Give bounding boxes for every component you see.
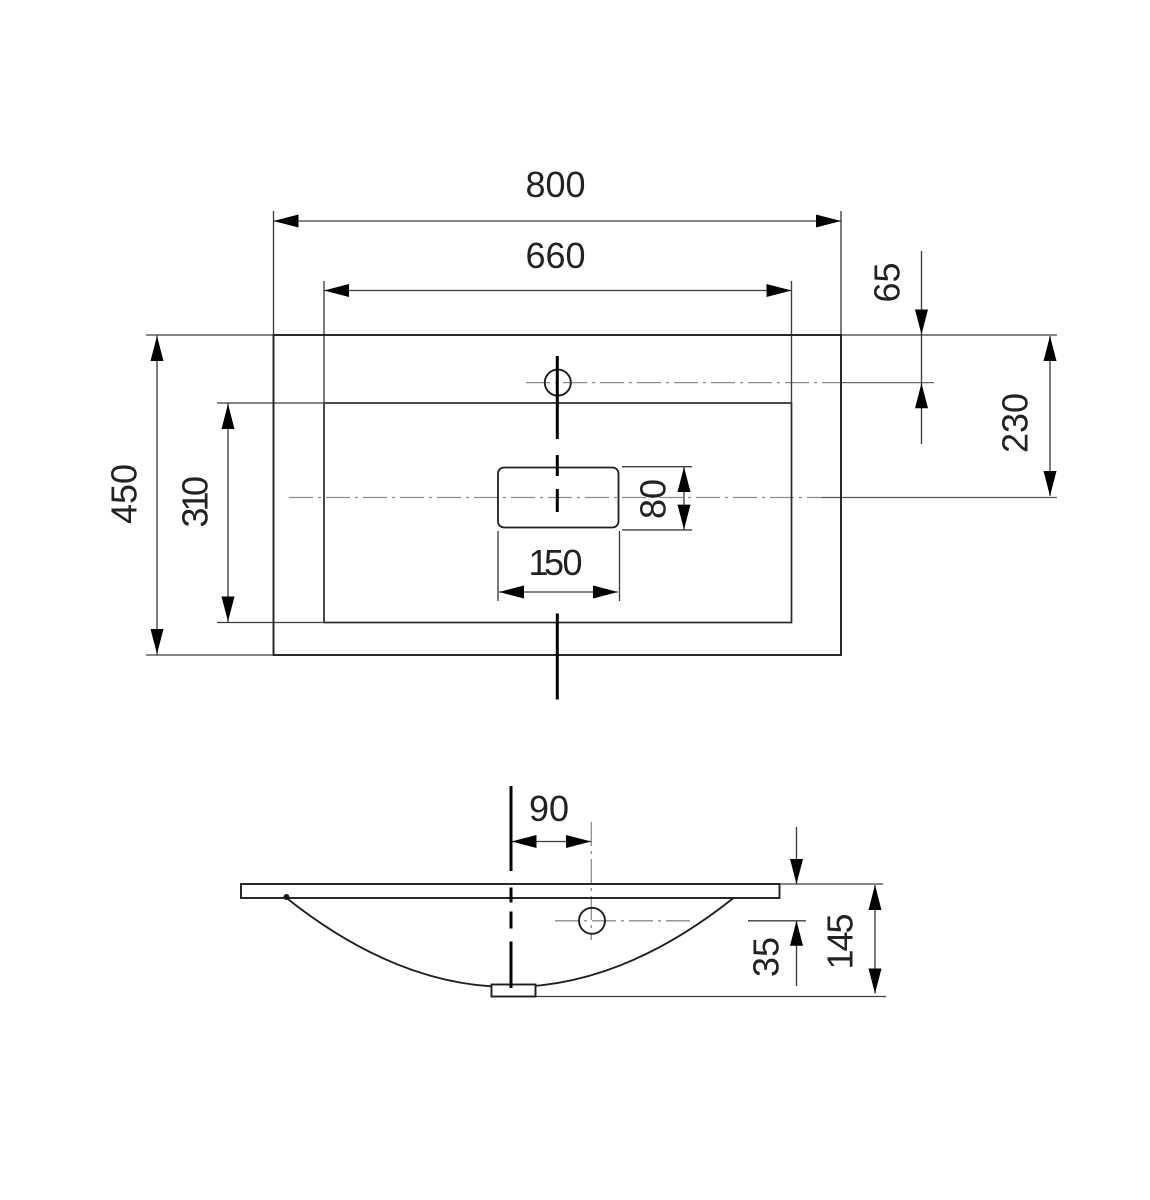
- svg-text:0: 0: [175, 476, 216, 496]
- svg-text:65: 65: [867, 262, 908, 302]
- svg-text:0: 0: [562, 542, 582, 583]
- svg-text:80: 80: [633, 479, 674, 519]
- svg-text:90: 90: [529, 788, 569, 829]
- svg-text:230: 230: [995, 393, 1036, 453]
- svg-text:660: 660: [525, 235, 585, 276]
- svg-text:5: 5: [544, 542, 564, 583]
- svg-text:5: 5: [820, 913, 861, 933]
- svg-text:35: 35: [746, 937, 787, 977]
- svg-text:800: 800: [525, 164, 585, 205]
- svg-text:450: 450: [104, 464, 145, 524]
